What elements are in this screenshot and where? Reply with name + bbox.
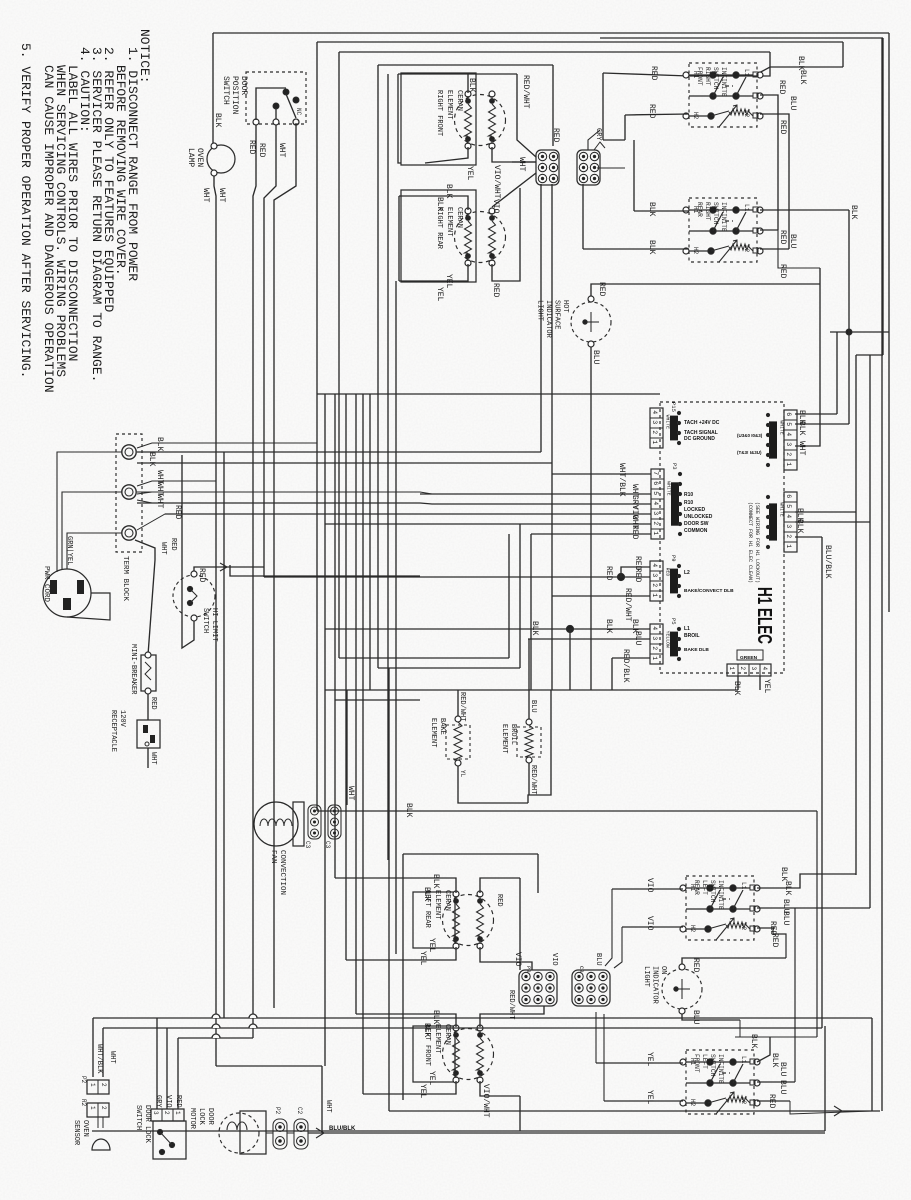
- svg-text:LIGHT: LIGHT: [642, 966, 650, 987]
- svg-text:P9: P9: [670, 555, 677, 562]
- svg-text:1: 1: [174, 1111, 181, 1115]
- svg-text:BLU/BLK: BLU/BLK: [823, 545, 832, 579]
- svg-text:RED: RED: [257, 143, 266, 158]
- svg-text:BLK: BLK: [422, 1023, 431, 1038]
- svg-text:INFINITE: INFINITE: [720, 67, 727, 97]
- svg-text:BLK: BLK: [431, 1010, 440, 1025]
- svg-text:BLK: BLK: [404, 803, 413, 818]
- svg-text:2: 2: [651, 646, 658, 650]
- svg-text:BAKE: BAKE: [438, 718, 446, 735]
- svg-text:DC GROUND: DC GROUND: [684, 436, 715, 442]
- svg-text:3: 3: [651, 573, 658, 577]
- svg-text:L2: L2: [740, 1097, 747, 1105]
- svg-text:3: 3: [652, 511, 659, 515]
- svg-text:2: 2: [100, 1083, 107, 1087]
- svg-text:3: 3: [152, 1111, 159, 1115]
- svg-text:YEL: YEL: [645, 1052, 654, 1067]
- svg-text:YEL: YEL: [645, 1090, 654, 1105]
- svg-text:SURFACE: SURFACE: [553, 300, 561, 329]
- svg-text:L1: L1: [684, 626, 690, 632]
- svg-text:WHT: WHT: [108, 1051, 116, 1064]
- svg-text:RED: RED: [633, 568, 642, 583]
- svg-text:RED: RED: [691, 958, 700, 973]
- svg-text:HI LIMIT: HI LIMIT: [210, 608, 218, 642]
- svg-text:P15: P15: [670, 402, 677, 412]
- svg-text:BLK: BLK: [155, 437, 164, 452]
- svg-text:WHT: WHT: [155, 494, 164, 509]
- svg-text:H2: H2: [692, 112, 699, 120]
- svg-text:RED: RED: [778, 120, 787, 135]
- svg-text:2: 2: [651, 583, 658, 587]
- svg-text:INFINITE: INFINITE: [717, 880, 724, 910]
- svg-text:INDICATOR: INDICATOR: [544, 300, 552, 339]
- svg-text:2: 2: [163, 1111, 170, 1115]
- svg-text:3: 3: [651, 636, 658, 640]
- svg-text:H2: H2: [692, 247, 699, 255]
- svg-text:VIO: VIO: [164, 1095, 172, 1108]
- svg-text:BLK: BLK: [647, 240, 656, 255]
- svg-text:SWITCH: SWITCH: [712, 67, 719, 90]
- svg-text:GRY: GRY: [594, 128, 602, 141]
- svg-text:BROIL: BROIL: [684, 633, 700, 639]
- svg-text:BLK: BLK: [431, 874, 440, 889]
- svg-text:VIO/WHT: VIO/WHT: [481, 1084, 490, 1118]
- svg-text:4: 4: [785, 514, 792, 518]
- svg-text:YEL: YEL: [418, 1084, 427, 1099]
- svg-text:WHT: WHT: [217, 188, 226, 203]
- svg-text:BLK: BLK: [467, 78, 476, 93]
- svg-text:YEL: YEL: [435, 287, 444, 302]
- svg-text:BLU: BLU: [633, 631, 642, 646]
- svg-text:LOCK: LOCK: [197, 1108, 205, 1126]
- svg-text:RED/WHT: RED/WHT: [521, 75, 530, 109]
- svg-text:BAKE DLB: BAKE DLB: [684, 647, 709, 653]
- svg-text:MOTOR: MOTOR: [188, 1108, 196, 1130]
- svg-text:SWITCH: SWITCH: [134, 1105, 142, 1130]
- svg-text:RED: RED: [630, 525, 639, 540]
- svg-text:L1: L1: [743, 69, 750, 77]
- svg-text:WHT: WHT: [517, 157, 526, 172]
- svg-text:RED: RED: [173, 505, 182, 520]
- svg-text:H2: H2: [689, 925, 696, 933]
- svg-text:WHITE: WHITE: [665, 415, 671, 430]
- svg-text:LIGHT: LIGHT: [536, 300, 544, 321]
- svg-text:BLU: BLU: [778, 1080, 787, 1095]
- svg-text:L2: L2: [684, 570, 690, 576]
- svg-text:SENSOR: SENSOR: [72, 1120, 80, 1146]
- svg-text:L1: L1: [743, 204, 750, 212]
- svg-text:1: 1: [651, 440, 658, 444]
- svg-text:RECEPTACLE: RECEPTACLE: [109, 710, 117, 752]
- svg-text:3: 3: [785, 524, 792, 528]
- svg-text:BLK: BLK: [444, 184, 453, 199]
- svg-text:YEL: YEL: [762, 679, 771, 694]
- svg-text:P2: P2: [274, 1107, 281, 1115]
- svg-text:L2: L2: [743, 245, 750, 253]
- svg-text:VIO: VIO: [550, 953, 558, 966]
- svg-text:L2: L2: [743, 110, 750, 118]
- svg-text:BLU/BLK: BLU/BLK: [329, 1126, 356, 1132]
- svg-text:BLK: BLK: [770, 1053, 779, 1068]
- svg-text:R10: R10: [684, 492, 693, 498]
- svg-text:DOOR LOCK: DOOR LOCK: [143, 1105, 151, 1144]
- svg-text:LEFT: LEFT: [701, 880, 708, 895]
- svg-text:RED: RED: [597, 282, 606, 297]
- svg-text:RED: RED: [551, 128, 560, 143]
- svg-text:SWITCH: SWITCH: [712, 202, 719, 225]
- svg-text:1: 1: [785, 544, 792, 548]
- svg-text:4: 4: [652, 501, 659, 505]
- svg-text:H2: H2: [689, 1099, 696, 1107]
- svg-text:DOOR: DOOR: [206, 1108, 214, 1126]
- svg-text:BLU: BLU: [529, 700, 537, 713]
- svg-text:BLK: BLK: [530, 621, 539, 636]
- svg-text:YEL: YEL: [427, 1071, 436, 1086]
- svg-text:4: 4: [651, 410, 658, 414]
- svg-text:LEFT: LEFT: [701, 1054, 708, 1069]
- svg-text:YEL: YEL: [444, 274, 453, 289]
- svg-text:YL: YL: [459, 770, 466, 778]
- svg-text:2: 2: [739, 667, 746, 671]
- svg-text:BLK: BLK: [797, 421, 806, 436]
- svg-text:BLU: BLU: [781, 911, 790, 926]
- svg-text:PWR CORD: PWR CORD: [42, 566, 50, 603]
- svg-text:BROIL: BROIL: [509, 724, 517, 745]
- svg-text:WHT: WHT: [201, 188, 210, 203]
- svg-text:VIO: VIO: [645, 916, 654, 931]
- svg-text:ELEMENT: ELEMENT: [500, 724, 508, 753]
- svg-text:BLK: BLK: [779, 867, 788, 882]
- svg-text:INFINITE: INFINITE: [720, 202, 727, 232]
- svg-text:BLK: BLK: [783, 881, 792, 896]
- svg-text:BLK: BLK: [213, 113, 222, 128]
- svg-text:1: 1: [785, 462, 792, 466]
- svg-text:1: 1: [89, 1106, 96, 1110]
- svg-text:RED: RED: [169, 538, 177, 551]
- svg-text:ELEMENT: ELEMENT: [433, 890, 441, 919]
- svg-text:WHT: WHT: [277, 143, 286, 158]
- svg-text:RED: RED: [604, 566, 613, 581]
- svg-text:WHITE: WHITE: [779, 502, 785, 517]
- svg-text:BLK: BLK: [732, 681, 741, 696]
- svg-text:WHT: WHT: [797, 441, 806, 456]
- svg-text:5: 5: [785, 504, 792, 508]
- svg-text:VIO/WHT: VIO/WHT: [492, 165, 501, 199]
- svg-text:DOOR SW: DOOR SW: [684, 521, 709, 527]
- svg-text:C2: C2: [296, 1107, 303, 1115]
- svg-text:SWITCH: SWITCH: [201, 608, 209, 633]
- svg-text:RED/WHT: RED/WHT: [623, 588, 632, 622]
- svg-text:R10: R10: [684, 500, 693, 506]
- svg-text:FRONT: FRONT: [693, 1054, 700, 1073]
- svg-text:FRONT: FRONT: [696, 67, 703, 86]
- svg-text:SWITCH: SWITCH: [709, 1054, 716, 1077]
- svg-text:4: 4: [761, 667, 768, 671]
- svg-text:2: 2: [651, 430, 658, 434]
- svg-text:RED: RED: [777, 80, 786, 95]
- svg-text:(CONNECT FOR H1 ELEC CLEAN): (CONNECT FOR H1 ELEC CLEAN): [747, 502, 753, 583]
- svg-text:L1: L1: [740, 882, 747, 890]
- svg-text:RED: RED: [770, 933, 779, 948]
- svg-text:R2: R2: [80, 1099, 87, 1107]
- svg-text:RED: RED: [665, 568, 671, 577]
- svg-text:1: 1: [651, 593, 658, 597]
- svg-text:SWITCH: SWITCH: [221, 76, 230, 105]
- svg-text:REAR: REAR: [693, 880, 700, 895]
- svg-text:RED/WHT: RED/WHT: [458, 692, 466, 721]
- svg-text:ELEMENT: ELEMENT: [445, 207, 453, 236]
- svg-text:1: 1: [728, 667, 735, 671]
- svg-text:RED: RED: [778, 264, 787, 279]
- svg-text:RED: RED: [197, 568, 206, 583]
- svg-text:2: 2: [652, 521, 659, 525]
- svg-text:CERAN: CERAN: [455, 90, 463, 111]
- svg-text:WHT: WHT: [346, 786, 355, 801]
- svg-text:YEL: YEL: [418, 951, 427, 966]
- svg-text:RED/WHT: RED/WHT: [507, 990, 515, 1019]
- svg-text:HOT: HOT: [561, 300, 569, 313]
- svg-text:OVEN: OVEN: [81, 1120, 89, 1137]
- svg-text:RIGHT FRONT: RIGHT FRONT: [435, 90, 443, 136]
- svg-text:WHT/BLK: WHT/BLK: [617, 463, 626, 497]
- svg-text:C3: C3: [324, 841, 331, 849]
- svg-text:GREEN: GREEN: [740, 655, 758, 661]
- svg-text:WHITE: WHITE: [779, 420, 785, 435]
- svg-text:6: 6: [652, 481, 659, 485]
- svg-text:YEL: YEL: [465, 166, 474, 181]
- svg-text:BLK: BLK: [647, 202, 656, 217]
- svg-text:BLK: BLK: [849, 205, 858, 220]
- svg-text:RIGHT: RIGHT: [704, 202, 711, 221]
- svg-text:BLK: BLK: [795, 519, 804, 534]
- svg-text:L2: L2: [740, 923, 747, 931]
- svg-text:BLU: BLU: [778, 1062, 787, 1077]
- svg-text:MINI-BREAKER: MINI-BREAKER: [129, 644, 137, 695]
- svg-text:CERAN: CERAN: [443, 890, 451, 911]
- svg-text:ELEMENT: ELEMENT: [445, 90, 453, 119]
- svg-text:BLK: BLK: [604, 619, 613, 634]
- svg-text:6: 6: [785, 494, 792, 498]
- svg-text:VIO: VIO: [513, 952, 522, 967]
- svg-text:7: 7: [652, 471, 659, 475]
- svg-text:ON: ON: [659, 966, 667, 974]
- svg-text:OVEN: OVEN: [195, 148, 204, 167]
- svg-text:RED/BLK: RED/BLK: [621, 649, 630, 683]
- svg-text:ELEMENT: ELEMENT: [433, 1024, 441, 1053]
- svg-text:BLK: BLK: [749, 1034, 758, 1049]
- svg-text:RED: RED: [767, 1094, 776, 1109]
- svg-text:5. VERIFY PROPER OPERATION AFT: 5. VERIFY PROPER OPERATION AFTER SERVICI…: [18, 43, 33, 378]
- svg-text:RED: RED: [495, 894, 503, 907]
- svg-text:RED: RED: [174, 1095, 182, 1108]
- svg-text:VIO: VIO: [491, 199, 500, 214]
- svg-text:6: 6: [785, 412, 792, 416]
- svg-text:COMMON: COMMON: [684, 528, 708, 534]
- svg-text:4: 4: [651, 626, 658, 630]
- svg-text:(U3&0 I0&3): (U3&0 I0&3): [737, 433, 763, 438]
- svg-text:BLK: BLK: [422, 887, 431, 902]
- svg-text:1: 1: [89, 1083, 96, 1087]
- svg-text:RIGHT: RIGHT: [704, 67, 711, 86]
- svg-text:ELEMENT: ELEMENT: [429, 718, 437, 747]
- svg-text:P8: P8: [525, 966, 532, 973]
- svg-text:P3: P3: [671, 463, 678, 470]
- svg-text:1: 1: [652, 531, 659, 535]
- svg-text:C8: C8: [578, 966, 585, 973]
- svg-text:TACH +24V DC: TACH +24V DC: [684, 420, 720, 426]
- svg-text:WHITE: WHITE: [666, 481, 672, 496]
- svg-text:NC: NC: [295, 108, 302, 116]
- svg-text:VIO: VIO: [645, 878, 654, 893]
- svg-text:2: 2: [100, 1106, 107, 1110]
- svg-text:GRN|YEL: GRN|YEL: [65, 536, 73, 565]
- svg-text:BLU: BLU: [788, 96, 797, 111]
- svg-text:FAN: FAN: [269, 850, 277, 864]
- svg-text:3: 3: [785, 442, 792, 446]
- svg-text:4: 4: [785, 432, 792, 436]
- svg-text:C3: C3: [304, 841, 311, 849]
- svg-text:YELLOW: YELLOW: [665, 631, 671, 648]
- svg-text:POSITION: POSITION: [230, 76, 239, 115]
- svg-text:P5: P5: [670, 618, 677, 625]
- svg-text:WHT: WHT: [159, 542, 167, 555]
- svg-text:BLU: BLU: [594, 953, 602, 966]
- svg-text:BLK: BLK: [798, 70, 807, 85]
- svg-text:5: 5: [785, 422, 792, 426]
- svg-text:BLK: BLK: [796, 56, 805, 71]
- svg-text:BAKE/CONVECT DLB: BAKE/CONVECT DLB: [684, 588, 734, 594]
- svg-text:RIGHT REAR: RIGHT REAR: [435, 207, 443, 250]
- svg-text:WHT/BLK: WHT/BLK: [95, 1044, 103, 1074]
- svg-text:GRY: GRY: [154, 1095, 162, 1108]
- svg-text:2: 2: [785, 534, 792, 538]
- svg-text:CAN CAUSE IMPROPER AND DANGERO: CAN CAUSE IMPROPER AND DANGEROUS OPERATI…: [41, 65, 56, 393]
- svg-text:INFINITE: INFINITE: [717, 1054, 724, 1084]
- svg-text:RED: RED: [649, 66, 658, 81]
- svg-text:SWITCH: SWITCH: [709, 880, 716, 903]
- svg-text:(T&3! I&3U): (T&3! I&3U): [737, 450, 762, 455]
- svg-text:P2: P2: [80, 1076, 87, 1084]
- svg-text:CERAN: CERAN: [443, 1024, 451, 1045]
- svg-text:L1: L1: [740, 1056, 747, 1064]
- svg-text:WHT: WHT: [149, 752, 157, 765]
- svg-text:RED/WHT: RED/WHT: [529, 765, 537, 794]
- svg-text:3: 3: [651, 420, 658, 424]
- svg-text:H1 ELEC: H1 ELEC: [753, 587, 775, 644]
- svg-text:YEL: YEL: [427, 938, 436, 953]
- svg-text:(SEE WIRING FOR H1 LOCKOUT): (SEE WIRING FOR H1 LOCKOUT): [754, 502, 760, 583]
- svg-text:RED: RED: [247, 140, 256, 155]
- svg-text:RED: RED: [491, 283, 500, 298]
- svg-text:DOOR: DOOR: [239, 76, 248, 95]
- svg-text:CONVECTION: CONVECTION: [278, 850, 286, 895]
- svg-text:BLU: BLU: [788, 234, 797, 249]
- svg-text:BLK: BLK: [147, 452, 156, 467]
- svg-text:BLU: BLU: [691, 1010, 700, 1025]
- svg-text:WHT: WHT: [324, 1100, 332, 1113]
- svg-text:INDICATOR: INDICATOR: [651, 966, 659, 1005]
- svg-text:5: 5: [652, 491, 659, 495]
- svg-text:RED: RED: [778, 230, 787, 245]
- svg-text:BLU: BLU: [591, 350, 600, 365]
- svg-text:RED: RED: [647, 104, 656, 119]
- svg-text:1: 1: [651, 656, 658, 660]
- svg-text:LAMP: LAMP: [186, 148, 195, 167]
- svg-text:REAR: REAR: [696, 202, 703, 217]
- svg-text:LOCKED: LOCKED: [684, 507, 706, 513]
- svg-text:4: 4: [651, 563, 658, 567]
- svg-text:BLK: BLK: [435, 197, 444, 212]
- svg-text:120V: 120V: [118, 710, 126, 728]
- svg-text:RED: RED: [149, 697, 157, 710]
- svg-text:CERAN: CERAN: [455, 207, 463, 228]
- svg-text:2: 2: [785, 452, 792, 456]
- svg-text:TERM BLOCK: TERM BLOCK: [121, 556, 129, 602]
- svg-text:UNLOCKED: UNLOCKED: [684, 514, 713, 520]
- svg-text:3: 3: [750, 667, 757, 671]
